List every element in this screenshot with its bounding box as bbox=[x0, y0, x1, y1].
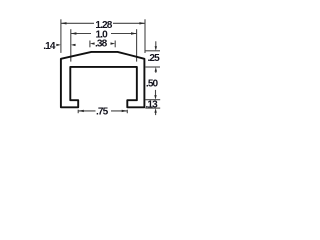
arrow left .38 bbox=[90, 42, 95, 44]
arrow down to foot top line bbox=[155, 90, 157, 96]
svg-text:.50: .50 bbox=[146, 79, 159, 90]
arrow up to part bottom line bbox=[155, 111, 157, 115]
extension line left of 1.28 bbox=[60, 19, 62, 53]
dimension line 1.0 bbox=[71, 33, 91, 35]
arrow right .38 bbox=[111, 42, 116, 44]
extension line right of 1.28 bbox=[144, 19, 146, 53]
svg-text:.13: .13 bbox=[146, 99, 159, 110]
arrow right 1.0 bbox=[131, 32, 137, 34]
svg-text:.14: .14 bbox=[43, 41, 56, 52]
svg-text:.25: .25 bbox=[148, 53, 161, 64]
extension line part bottom (.13 bottom) bbox=[145, 107, 160, 109]
extension line left of 1.0 bbox=[70, 29, 72, 61]
tick left of .75 (left foot tip) bbox=[77, 110, 79, 114]
arrow right 1.28 bbox=[139, 22, 145, 24]
arrow right .75 bbox=[122, 110, 128, 112]
arrow .14 pointing left at 1.0 extension line bbox=[73, 44, 76, 46]
arrow up to .25 bottom bbox=[155, 70, 157, 73]
extension line foot top (.13 top) bbox=[145, 99, 160, 101]
tick left of .38 bbox=[89, 41, 91, 48]
extension line right of 1.0 bbox=[136, 29, 138, 61]
extension line bottom of .25 (cavity top level) bbox=[145, 66, 160, 68]
arrow .14 pointing right at outer edge line bbox=[57, 44, 60, 46]
part outline (channel cross-section) bbox=[61, 52, 144, 107]
dimension line .75 bbox=[78, 110, 95, 112]
svg-text:.75: .75 bbox=[96, 107, 109, 118]
arrow left 1.0 bbox=[71, 32, 77, 34]
svg-text:.38: .38 bbox=[95, 38, 108, 49]
arrow left .75 bbox=[78, 110, 84, 112]
tick right of .75 (right foot tip) bbox=[126, 110, 128, 114]
arrow left 1.28 bbox=[61, 22, 67, 24]
tick right of .38 bbox=[114, 41, 116, 48]
extension line top of .25 (crown level) bbox=[145, 50, 160, 52]
dimension line 1.28 bbox=[61, 22, 94, 24]
arrow down to .25 top bbox=[155, 41, 157, 47]
